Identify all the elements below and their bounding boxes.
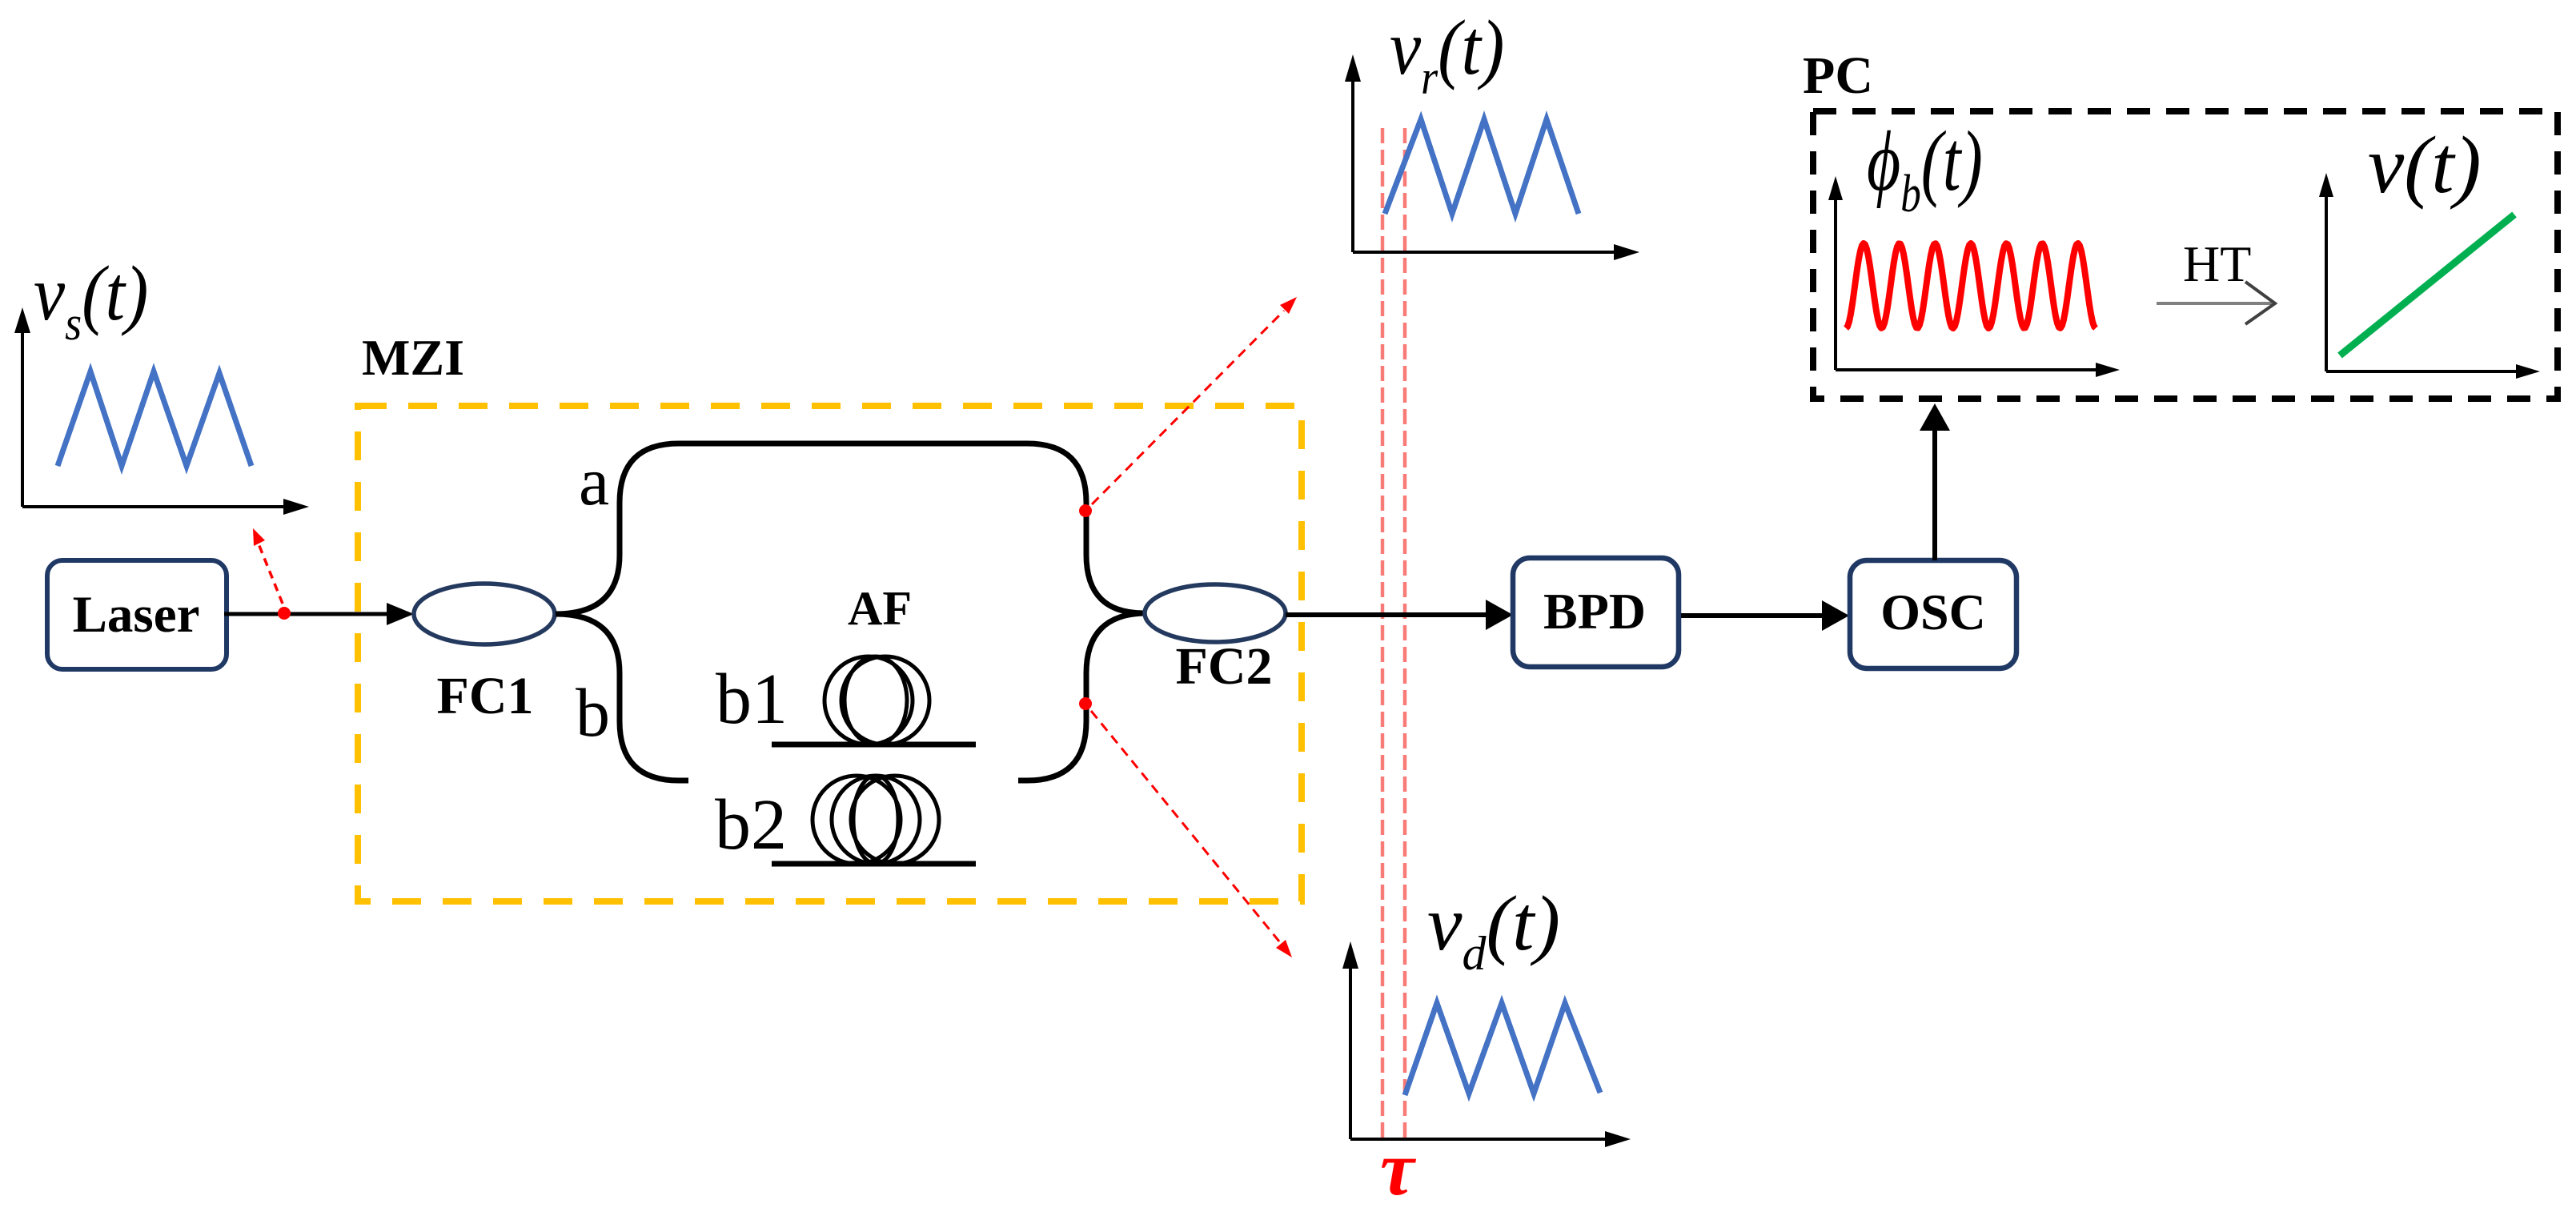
delay marker dashed line tau right bbox=[1403, 128, 1407, 1138]
waveform vr triangle wave bbox=[1385, 119, 1579, 214]
svg-text:BPD: BPD bbox=[1543, 583, 1646, 640]
svg-text:ϕb(t): ϕb(t) bbox=[1867, 113, 1983, 223]
wire upper arm a bbox=[556, 443, 1146, 614]
box PC dashed black bbox=[1813, 111, 2558, 399]
svg-text:vs(t): vs(t) bbox=[34, 251, 148, 351]
svg-text:FC1: FC1 bbox=[437, 667, 534, 725]
label b2 bbox=[715, 785, 787, 865]
label arm b bbox=[576, 674, 610, 751]
arrow dashed red to vr plot bbox=[1092, 297, 1297, 504]
wire lower arm b left bbox=[556, 614, 688, 781]
label MZI bbox=[362, 329, 464, 386]
svg-text:b1: b1 bbox=[716, 660, 788, 739]
label phi b (t) bbox=[1867, 113, 1983, 223]
detector box BPD bbox=[1513, 558, 1679, 667]
svg-text:b: b bbox=[576, 674, 610, 751]
delay marker dashed line tau left bbox=[1381, 128, 1385, 1138]
arrow dashed red to vs plot bbox=[253, 528, 283, 604]
label FC1 bbox=[437, 667, 534, 725]
wire FC2 to BPD bbox=[1286, 600, 1513, 630]
node tap point red dot 2 upper bbox=[1079, 504, 1092, 517]
svg-text:τ: τ bbox=[1380, 1126, 1417, 1211]
label PC bbox=[1803, 46, 1873, 105]
base line under coil b1 bbox=[772, 742, 976, 748]
waveform phi red sine bbox=[1846, 243, 2096, 328]
wire OSC to PC bbox=[1920, 403, 1950, 560]
label HT bbox=[2183, 235, 2251, 292]
plot vr axes bbox=[1345, 54, 1639, 260]
plot phi axes bbox=[1828, 176, 2120, 377]
node tap point red dot 3 lower bbox=[1079, 697, 1092, 710]
plot v axes bbox=[2319, 173, 2540, 379]
svg-text:FC2: FC2 bbox=[1176, 637, 1273, 696]
label v(t) bbox=[2368, 120, 2482, 211]
label vd(t) bbox=[1427, 881, 1560, 980]
box MZI dashed yellow bbox=[358, 406, 1302, 901]
arrow HT gray bbox=[2157, 282, 2275, 324]
arrow dashed red to vd plot bbox=[1091, 711, 1292, 957]
wire BPD to OSC bbox=[1681, 600, 1849, 631]
plot vd axes bbox=[1342, 941, 1631, 1147]
svg-text:OSC: OSC bbox=[1880, 584, 1986, 640]
svg-text:v(t): v(t) bbox=[2368, 120, 2482, 211]
svg-text:AF: AF bbox=[848, 582, 912, 635]
waveform v green line bbox=[2340, 215, 2514, 355]
label arm a bbox=[579, 443, 609, 520]
coupler FC1 bbox=[414, 584, 555, 644]
svg-text:a: a bbox=[579, 443, 609, 520]
waveform vd triangle wave bbox=[1405, 1003, 1600, 1095]
label vs(t) bbox=[34, 251, 148, 351]
coupler FC2 bbox=[1145, 584, 1286, 642]
plot vs axes bbox=[14, 307, 309, 515]
svg-text:vd(t): vd(t) bbox=[1427, 881, 1560, 980]
label b1 bbox=[716, 660, 788, 739]
fiber coil b1 bbox=[825, 656, 929, 744]
label vr(t) bbox=[1390, 5, 1504, 105]
wire lower arm b right bbox=[1018, 613, 1146, 781]
oscilloscope box OSC bbox=[1850, 560, 2016, 668]
fiber coil b2 bbox=[813, 776, 939, 864]
node tap point red dot 1 bbox=[278, 607, 291, 620]
svg-text:vr(t): vr(t) bbox=[1390, 5, 1504, 105]
label FC2 bbox=[1176, 637, 1273, 696]
label tau red bbox=[1380, 1126, 1417, 1211]
wire laser to FC1 bbox=[224, 603, 414, 625]
base line under coil b2 bbox=[772, 861, 976, 867]
svg-text:b2: b2 bbox=[715, 785, 787, 865]
svg-text:Laser: Laser bbox=[73, 586, 200, 644]
waveform vs triangle wave bbox=[58, 371, 251, 466]
svg-text:HT: HT bbox=[2183, 235, 2251, 292]
svg-text:MZI: MZI bbox=[362, 329, 464, 386]
laser box bbox=[47, 560, 227, 669]
label AF bbox=[848, 582, 912, 635]
svg-text:PC: PC bbox=[1803, 46, 1873, 105]
